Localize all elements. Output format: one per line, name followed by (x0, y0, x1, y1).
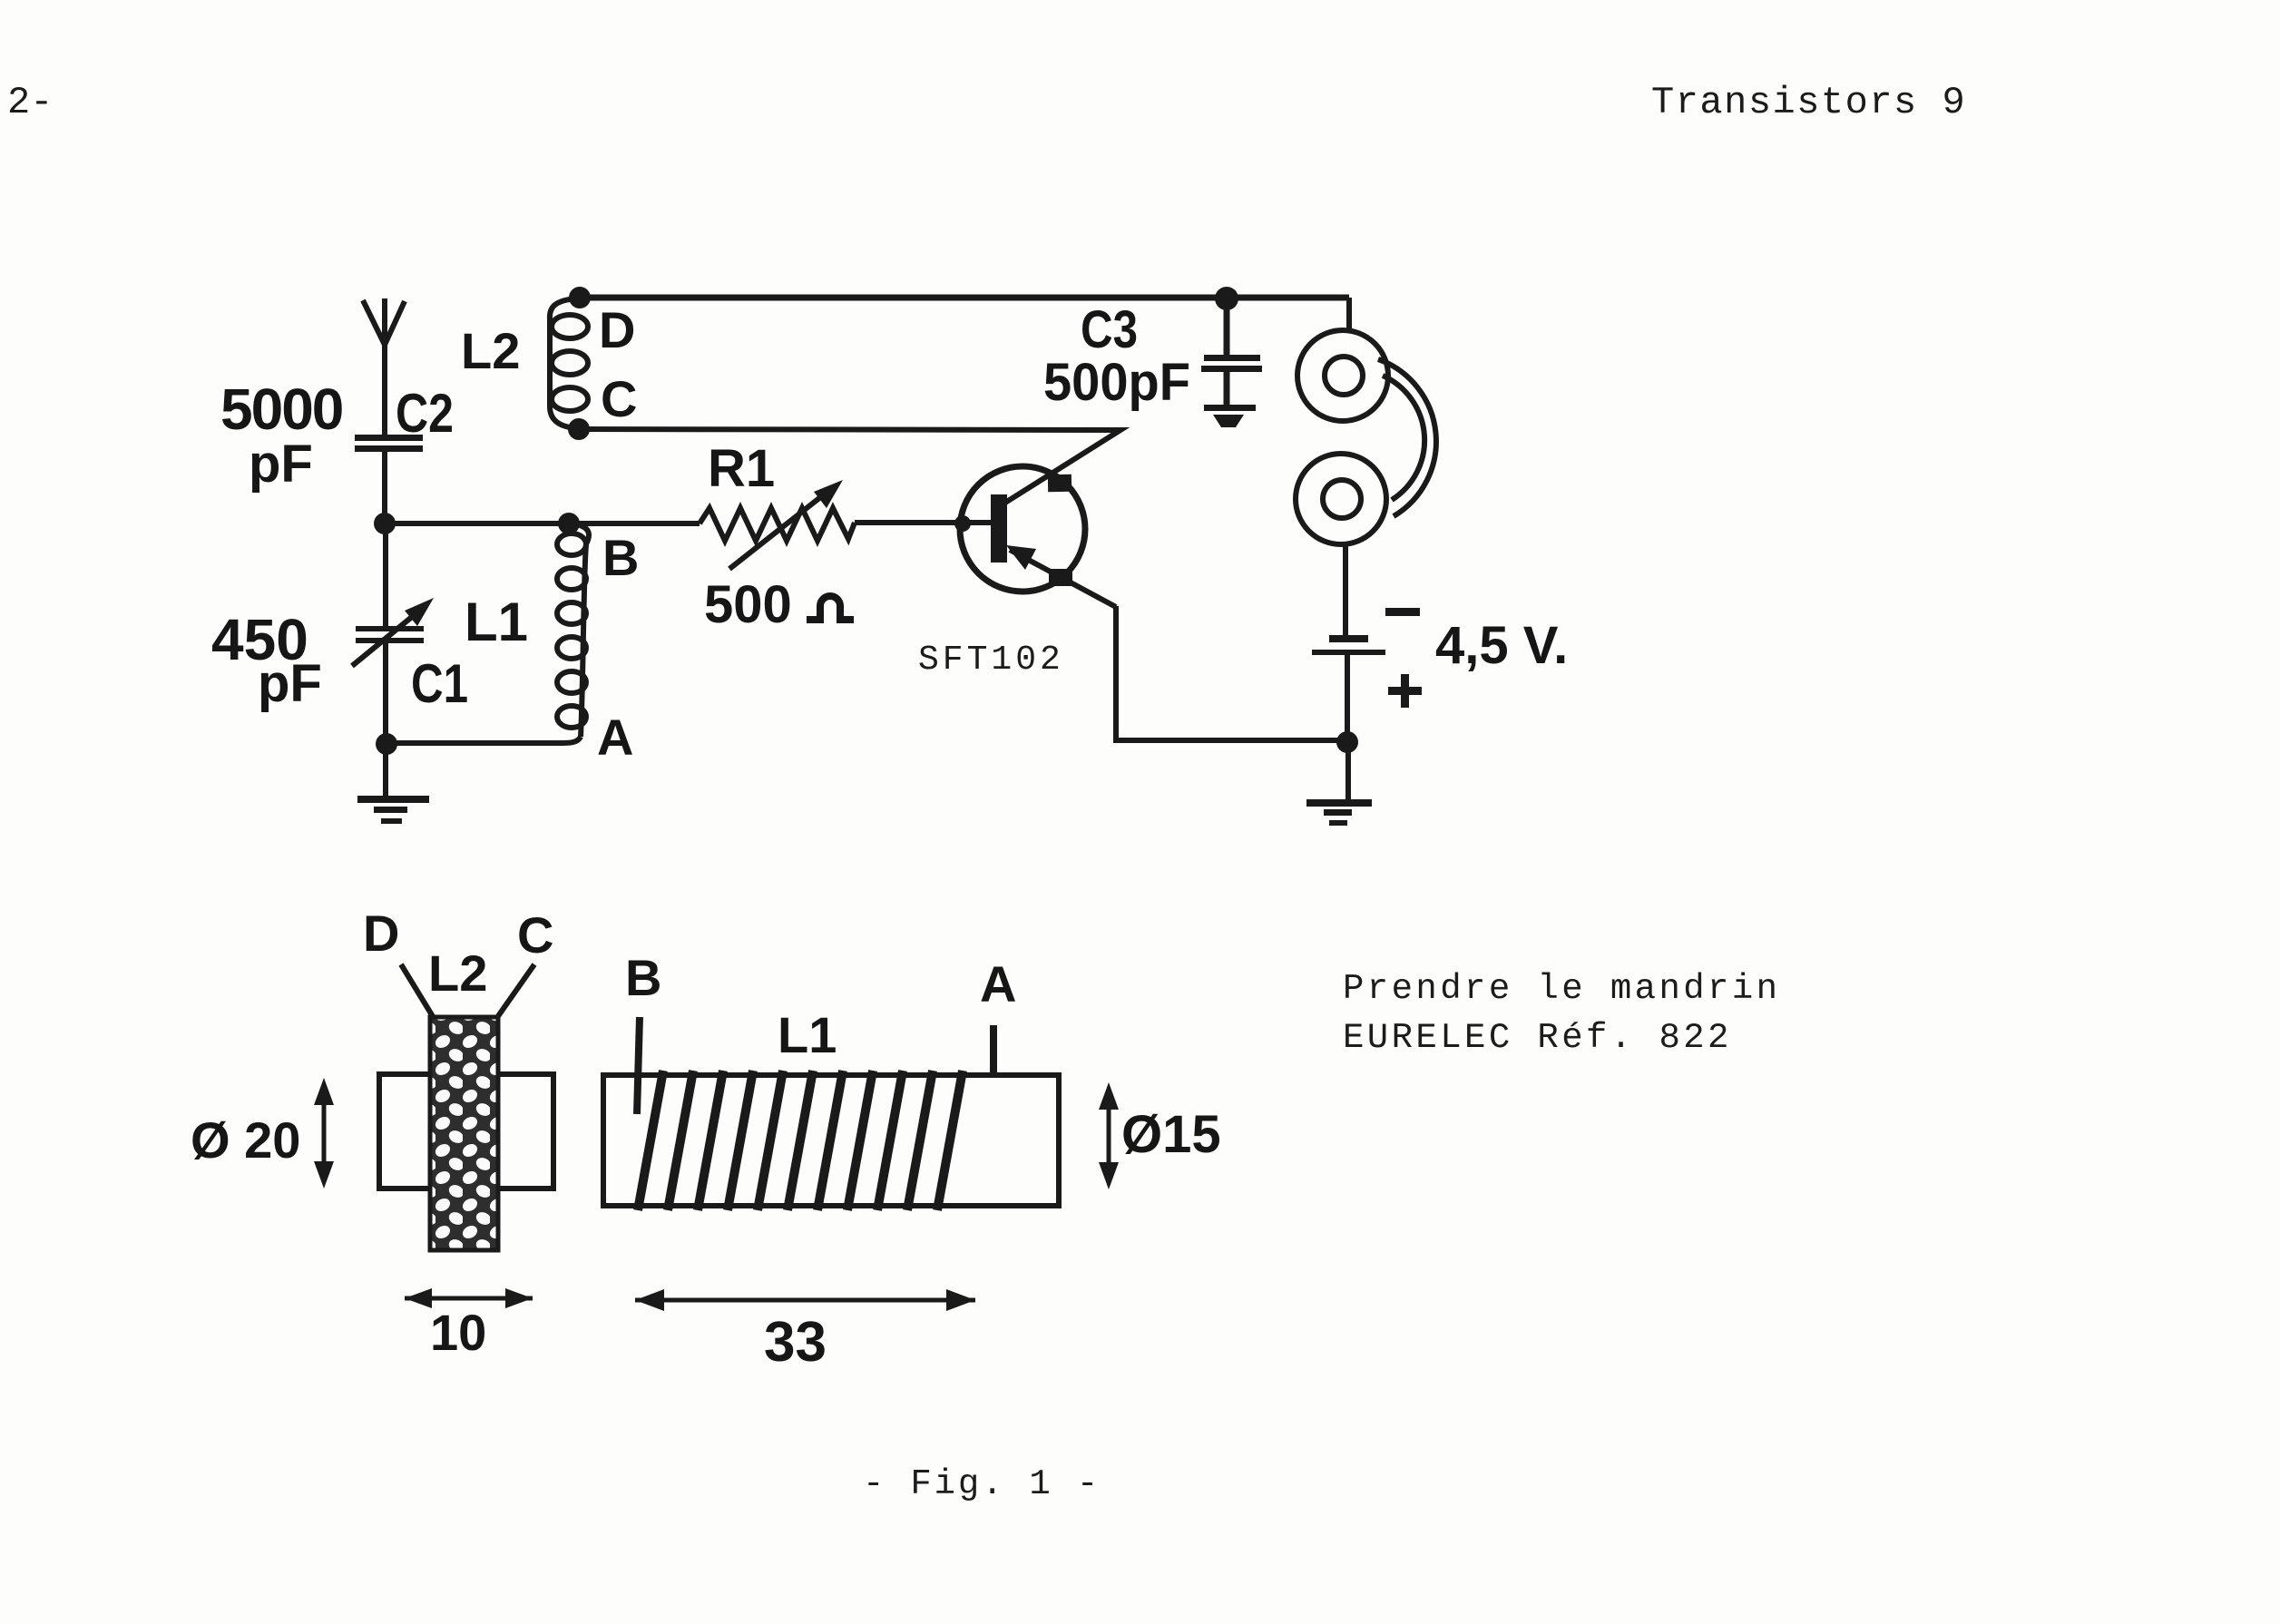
svg-text:Transistors 9: Transistors 9 (1651, 81, 1966, 124)
wire battery to junction (1345, 655, 1350, 742)
node L2 D (top) (569, 287, 591, 308)
svg-text:B: B (625, 949, 661, 1006)
C1 arrow (352, 598, 434, 666)
svg-text:pF: pF (249, 435, 313, 494)
transistor Q1 circle (960, 466, 1085, 592)
node base wire/circle (954, 515, 971, 532)
wire junction to R1 (base line) (385, 521, 700, 526)
L2 winding lead C (498, 964, 534, 1016)
label minus (1385, 608, 1420, 616)
label plus (1388, 674, 1422, 708)
emitter arrowhead (1006, 545, 1036, 570)
ground (left) (357, 796, 429, 824)
emitter lead (1010, 550, 1116, 607)
wire C2 to junction (382, 452, 387, 523)
svg-text:L2: L2 (461, 322, 520, 379)
wire junction down to C1 (383, 523, 388, 628)
svg-text:A: A (980, 955, 1016, 1013)
svg-text:L1: L1 (778, 1006, 837, 1063)
C3 ground (1204, 405, 1256, 427)
node L2 C (bottom) (568, 418, 590, 440)
R1 arrow (729, 480, 843, 569)
headphone wire from rail (1346, 298, 1352, 331)
L1 winding lead A (990, 1025, 997, 1078)
node junction C1/L1 bottom (376, 733, 397, 755)
coil L2 (schematic) (550, 298, 588, 428)
mandrel rect (L2) (379, 1074, 553, 1189)
svg-text:C: C (517, 906, 553, 964)
L2 crosshatch band (430, 1017, 498, 1250)
svg-text:EURELEC Réf. 822: EURELEC Réf. 822 (1343, 1018, 1732, 1058)
L1 winding turns (638, 1071, 963, 1210)
svg-text:2-: 2- (7, 81, 53, 124)
wire bottom earpiece to battery (1343, 544, 1348, 636)
headphone band (1378, 359, 1436, 516)
svg-text:A: A (597, 709, 633, 766)
svg-text:pF: pF (258, 654, 322, 713)
svg-text:C: C (601, 370, 637, 427)
transistor base bar (991, 494, 1007, 563)
svg-text:500pF: 500pF (1043, 353, 1190, 412)
ground (right) (1306, 799, 1372, 826)
svg-text:500: 500 (704, 575, 792, 634)
svg-text:B: B (602, 529, 639, 586)
top rail wire (580, 295, 1349, 301)
wire junction to ground left (383, 744, 388, 797)
node collector/circle (1048, 474, 1072, 492)
wire L2 C to corner and to collector (579, 429, 1120, 503)
svg-text:SFT102: SFT102 (918, 641, 1064, 680)
dimension arrow 33 (635, 1289, 975, 1311)
dimension arrow dia 20 (314, 1078, 334, 1189)
node junction C2/C1/base wire (374, 513, 396, 534)
battery B1 (1312, 635, 1385, 655)
svg-text:R1: R1 (708, 439, 775, 498)
L1 winding lead B (637, 1017, 640, 1114)
svg-text:C3: C3 (1081, 300, 1138, 359)
coil L1 (schematic) (557, 525, 589, 737)
L2 winding lead D (401, 964, 434, 1018)
wire R1 to base (855, 520, 993, 525)
svg-text:L1: L1 (465, 592, 528, 652)
dimension arrow dia 15 (1099, 1082, 1119, 1189)
svg-text:L2: L2 (428, 944, 487, 1002)
wire L1 bottom to junction (387, 737, 581, 743)
wire C1 to bottom junction (383, 643, 388, 744)
svg-text:Prendre le mandrin: Prendre le mandrin (1343, 969, 1780, 1009)
resistor R1 (variable) (700, 508, 855, 541)
mandrel rect (L1) (603, 1075, 1059, 1206)
node L1 top (558, 513, 580, 534)
svg-text:Ø15: Ø15 (1121, 1105, 1221, 1164)
svg-text:10: 10 (430, 1304, 486, 1361)
headphone earpiece top (1297, 330, 1388, 421)
svg-text:C1: C1 (411, 653, 468, 714)
emitter wire down and right (1116, 606, 1347, 740)
svg-text:D: D (363, 905, 399, 962)
svg-text:- Fig. 1 -: - Fig. 1 - (863, 1464, 1101, 1504)
svg-text:D: D (599, 301, 635, 358)
node emitter/circle (1049, 569, 1072, 586)
svg-text:C2: C2 (396, 383, 454, 444)
variable capacitor C1 (356, 626, 424, 643)
svg-text:Ø 20: Ø 20 (191, 1111, 300, 1169)
capacitor C2 (355, 435, 423, 452)
capacitor C3 (1224, 298, 1230, 356)
svg-text:4,5 V.: 4,5 V. (1435, 616, 1568, 675)
headphone earpiece bottom (1296, 454, 1386, 544)
svg-text:5000: 5000 (220, 377, 342, 442)
wire junction to ground right (1345, 742, 1351, 800)
node rail/C3 junction (1215, 287, 1238, 310)
svg-text:33: 33 (764, 1311, 827, 1374)
dimension arrow 10 (405, 1288, 533, 1308)
node battery/emitter junction (1336, 731, 1358, 753)
antenna (363, 298, 405, 436)
